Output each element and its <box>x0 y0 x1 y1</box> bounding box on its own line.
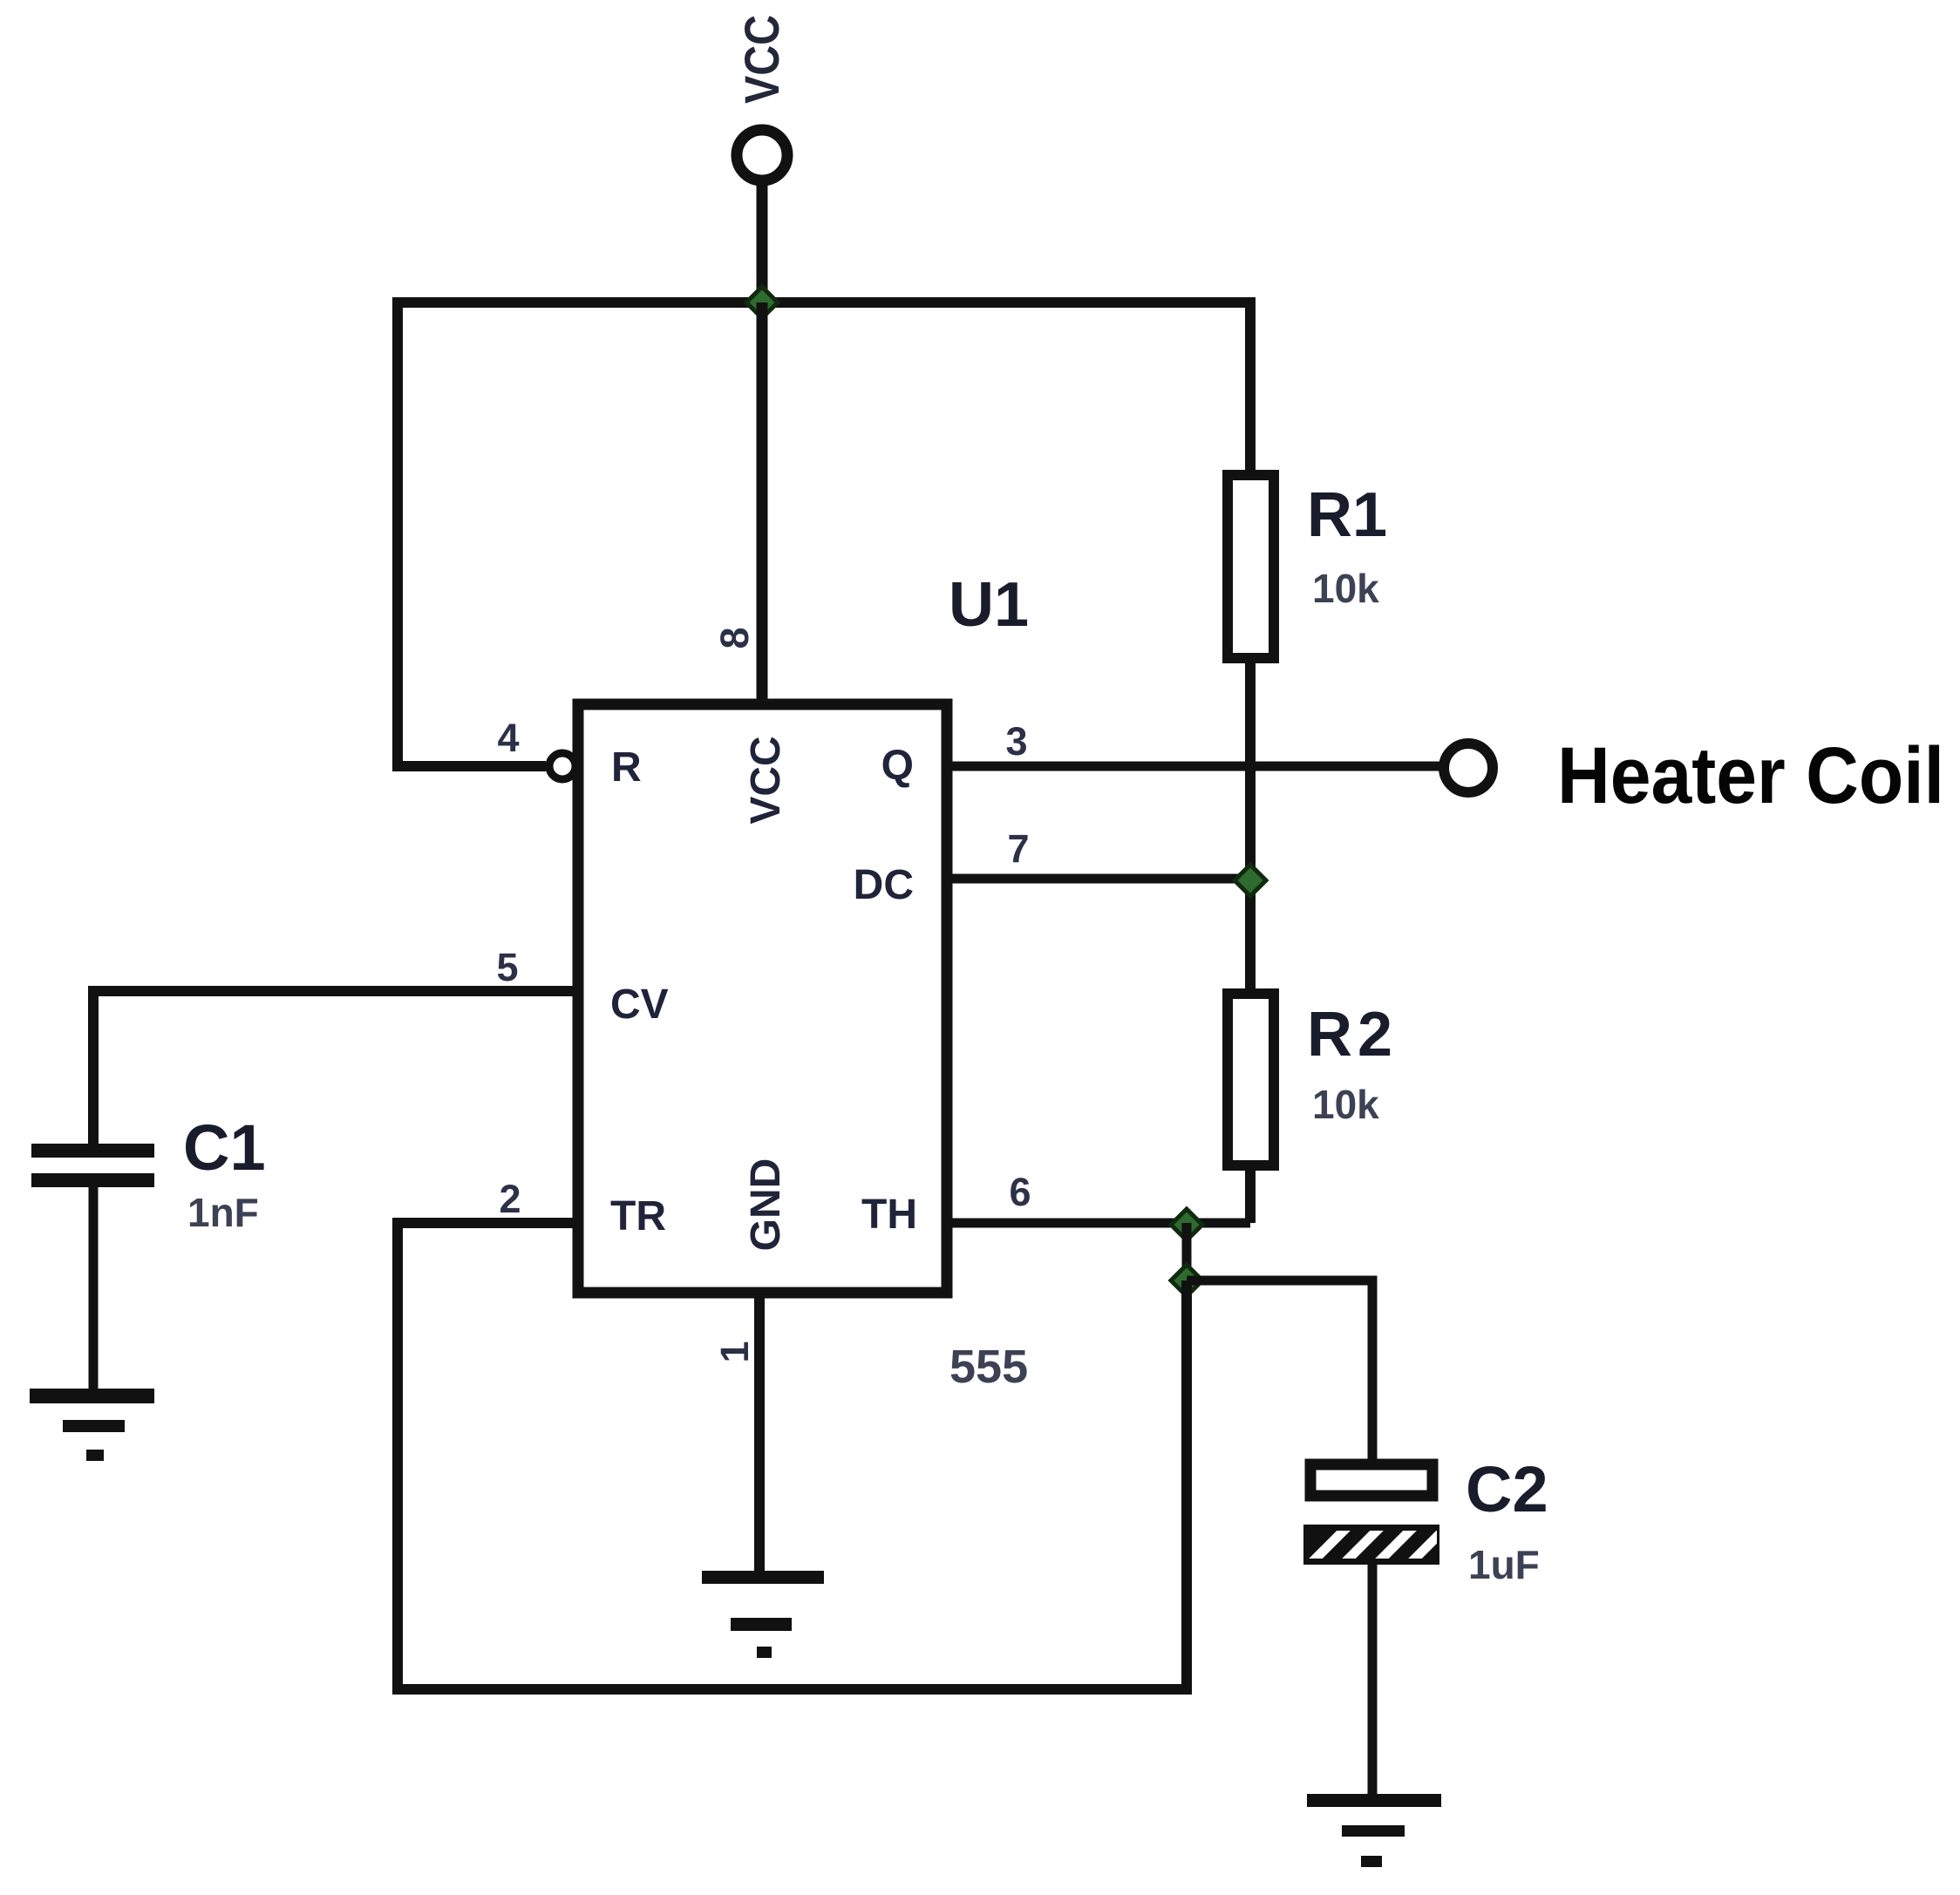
ground C2 <box>1307 1794 1441 1867</box>
svg-text:4: 4 <box>497 716 519 760</box>
wire C2 to ground <box>1368 1561 1378 1794</box>
svg-text:GND: GND <box>743 1158 789 1252</box>
wire pin 2 trigger loop <box>398 1223 1187 1689</box>
svg-text:DC: DC <box>854 862 914 908</box>
wire pin 7 <box>947 874 1250 884</box>
wire R1 bottom to R2 top <box>1245 658 1256 994</box>
heater terminal <box>1444 744 1493 792</box>
svg-text:TH: TH <box>861 1192 917 1238</box>
junction C2 node <box>1171 1265 1202 1296</box>
svg-text:VCC: VCC <box>743 736 789 824</box>
svg-text:1nF: 1nF <box>187 1190 259 1235</box>
svg-text:C2: C2 <box>1466 1453 1548 1525</box>
svg-text:R: R <box>611 744 642 791</box>
junction VCC rail <box>746 287 778 318</box>
wire VCC terminal to rail <box>757 180 768 302</box>
resistor R1 <box>1228 475 1274 658</box>
wire pin 6 <box>947 1219 1250 1228</box>
svg-text:R1: R1 <box>1307 480 1387 550</box>
wire pin 3 to heater terminal <box>947 762 1444 771</box>
wire top rail to R1 <box>398 302 1250 476</box>
junction pin 7 R1 R2 <box>1235 865 1266 896</box>
svg-text:10k: 10k <box>1312 1082 1379 1127</box>
svg-text:5: 5 <box>496 945 518 989</box>
svg-text:U1: U1 <box>949 570 1029 640</box>
wire C1 to ground <box>89 1186 99 1389</box>
junction TH node <box>1171 1209 1202 1240</box>
wire between junctions <box>1182 1223 1192 1280</box>
wire pin 1 GND <box>754 1293 765 1571</box>
svg-text:C1: C1 <box>183 1111 266 1184</box>
capacitor C1 <box>31 1144 154 1187</box>
svg-text:Q: Q <box>881 743 914 789</box>
svg-text:555: 555 <box>949 1341 1028 1393</box>
capacitor C2 bottom plate polarized <box>1303 1523 1451 1570</box>
resistor R2 <box>1228 994 1274 1165</box>
wire left drop to pin 4 <box>398 297 546 766</box>
capacitor C2 top plate <box>1310 1464 1433 1496</box>
svg-text:VCC: VCC <box>734 15 789 104</box>
svg-text:1: 1 <box>712 1341 757 1362</box>
reset bubble pin 4 <box>549 753 575 779</box>
svg-text:2: 2 <box>499 1177 521 1221</box>
svg-text:3: 3 <box>1005 719 1027 764</box>
VCC terminal <box>737 130 787 180</box>
svg-text:1uF: 1uF <box>1468 1542 1540 1587</box>
wire C2 branch <box>1187 1280 1372 1460</box>
wire pin 5 to C1 <box>93 991 578 1144</box>
wire pin 8 <box>757 302 768 710</box>
svg-text:8: 8 <box>712 627 757 649</box>
svg-text:6: 6 <box>1009 1170 1031 1214</box>
svg-text:7: 7 <box>1007 826 1029 871</box>
svg-text:TR: TR <box>610 1193 666 1240</box>
svg-text:CV: CV <box>610 981 669 1028</box>
wire R2 bottom to pin6 line <box>1245 1165 1256 1223</box>
ground pin1 <box>702 1571 824 1658</box>
ground C1 <box>30 1389 154 1461</box>
svg-text:R2: R2 <box>1307 1000 1398 1070</box>
svg-text:Heater Coil: Heater Coil <box>1557 731 1944 820</box>
op IC body U1 555 <box>578 704 947 1293</box>
svg-text:10k: 10k <box>1312 566 1379 611</box>
